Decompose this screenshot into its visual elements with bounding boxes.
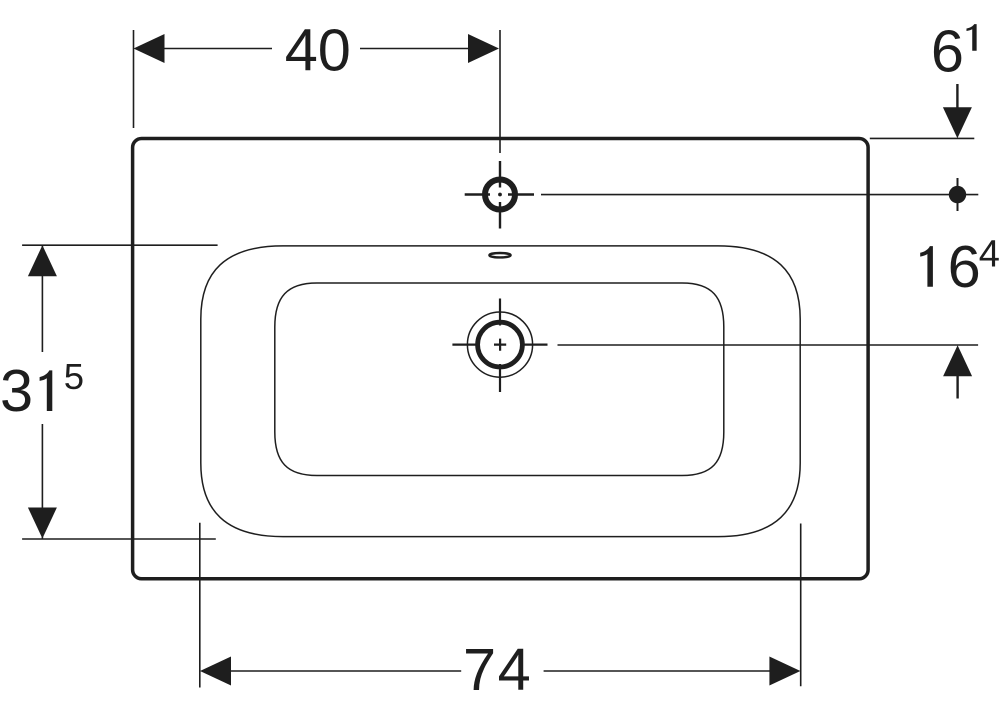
svg-text:3: 3 [0, 357, 33, 424]
reference dot [949, 186, 966, 203]
dim 6 arrow tail [956, 84, 958, 112]
washbasin outer edge [133, 139, 869, 579]
dim 40 arrow right [468, 34, 499, 63]
basin inner rim [201, 246, 800, 537]
dim 40 extension line right [499, 30, 501, 153]
tap hole center dot [498, 193, 502, 197]
tap hole centerline horizontal [465, 193, 534, 195]
dim 6 arrow down [943, 107, 972, 138]
svg-text:6: 6 [931, 18, 964, 85]
dim 40 extension line left [133, 30, 135, 128]
svg-text:74: 74 [463, 636, 532, 703]
dim 74 arrow left [200, 657, 231, 686]
dim 74 line [228, 670, 773, 672]
overflow slot [489, 253, 510, 257]
dim 31.5 bottom tick [22, 538, 216, 540]
reference dot tick [957, 178, 959, 211]
drain outer circle [467, 312, 532, 377]
dim 16 arrow up [943, 345, 972, 376]
svg-text:40: 40 [285, 17, 351, 84]
drain height line [558, 344, 979, 346]
drain centerline horizontal [452, 344, 547, 346]
svg-text:4: 4 [979, 234, 1000, 276]
tap hole height line [541, 194, 978, 196]
dim 31.5 top tick [22, 244, 218, 246]
dim 6 top edge extension [870, 137, 975, 139]
dim 31.5 arrow up [28, 245, 57, 276]
dim 31.5 line [41, 245, 43, 538]
drain ring [478, 322, 523, 367]
dim 16 arrow tail [956, 375, 958, 399]
dim 40 line [160, 48, 470, 50]
basin bowl bottom [275, 283, 724, 476]
label 16 digit 1 [920, 246, 933, 287]
tap hole centerline vertical [499, 161, 501, 229]
svg-text:6: 6 [948, 233, 981, 300]
drain centerline vertical [499, 299, 501, 393]
dim 74 extension line right [800, 524, 802, 687]
dim 74 arrow right [769, 657, 800, 686]
drain center cross [494, 339, 506, 351]
dim 40 arrow left [134, 34, 165, 63]
label 6 exponent 1 [966, 24, 976, 51]
svg-text:5: 5 [64, 356, 84, 397]
dim 31.5 arrow down [28, 508, 57, 539]
tap hole ring [485, 180, 515, 210]
dim 74 extension line left [199, 523, 201, 688]
label 31.5 digit 1 [40, 370, 53, 411]
